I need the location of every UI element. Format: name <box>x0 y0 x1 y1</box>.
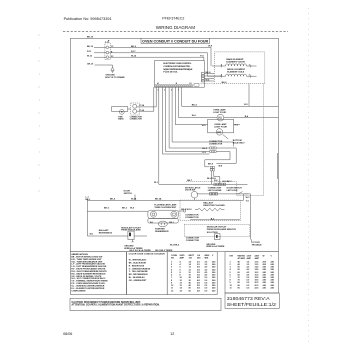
caution box <box>70 298 221 310</box>
broil element label <box>227 69 245 74</box>
svg-text:4.5: 4.5 <box>205 274 209 277</box>
wire GR ground run <box>95 65 113 67</box>
svg-text:240: 240 <box>271 281 275 284</box>
svg-text:AT BKR: AT BKR <box>238 257 246 260</box>
svg-text:2C: 2C <box>111 56 114 58</box>
wire label W-15 <box>87 56 93 58</box>
connector caption mid <box>209 141 223 145</box>
wire EOC pin4 to elements <box>204 80 214 82</box>
title block part number <box>227 296 270 301</box>
wire label B-5 <box>244 104 248 106</box>
svg-text:12: 12 <box>189 267 192 269</box>
bake terminal label T-1 <box>249 64 251 66</box>
svg-text:4.0: 4.0 <box>247 266 251 269</box>
heating element broil coil <box>221 74 251 78</box>
wire label BK-9 <box>131 46 137 48</box>
svg-text:V: V <box>212 255 214 257</box>
pin label 1 <box>111 46 114 48</box>
svg-text:NO: NO <box>171 258 174 260</box>
svg-text:BK-1: BK-1 <box>169 222 173 224</box>
EOC right pin 1 <box>201 73 204 75</box>
abbreviations table box <box>70 252 126 295</box>
wire labels R-4 W-6 <box>214 179 233 183</box>
wire label BK-10 <box>87 46 94 48</box>
svg-text:DEMARREUR: DEMARREUR <box>155 230 169 233</box>
svg-text:GR-19: GR-19 <box>87 63 94 65</box>
svg-text:4.5: 4.5 <box>205 271 209 274</box>
wire gauge table 2 text <box>230 254 275 289</box>
svg-text:40: 40 <box>189 284 192 287</box>
svg-text:4.0: 4.0 <box>205 266 209 269</box>
time connector dashed box <box>131 103 139 115</box>
svg-text:318046773 REV:A: 318046773 REV:A <box>227 296 270 301</box>
svg-text:P-36: P-36 <box>140 110 145 112</box>
heating element bake coil <box>221 64 251 68</box>
starter caption <box>155 227 169 233</box>
pin label 2 <box>111 51 113 53</box>
wire label W-1 on latch feed <box>154 182 159 184</box>
oven cavity box <box>208 119 234 132</box>
svg-text:7: 7 <box>178 90 179 92</box>
svg-text:BL-3: BL-3 <box>202 148 207 150</box>
wire label BK-7 <box>187 180 193 182</box>
pin label 3 <box>111 56 114 58</box>
bottom bulb note <box>233 140 246 144</box>
wire gauge table 1 box <box>167 252 217 295</box>
svg-text:AMP: AMP <box>247 257 252 260</box>
wire label GR-19 <box>87 63 94 65</box>
wire label W-9 <box>104 208 110 210</box>
svg-text:6.0: 6.0 <box>205 290 209 292</box>
wire element return drop <box>248 84 250 107</box>
ground symbol chassis <box>111 67 114 72</box>
svg-text:BK-16: BK-16 <box>87 37 94 39</box>
svg-text:R - RED/ROUGE: R - RED/ROUGE <box>129 265 145 267</box>
motor latch caption <box>185 186 201 191</box>
leader line bottom bulb <box>223 135 229 140</box>
wire label cluster W2 BK2 <box>170 245 180 247</box>
svg-text:8: 8 <box>171 280 173 282</box>
connector pin circle b <box>133 109 137 113</box>
dashed top border <box>63 30 288 32</box>
wire label W-4 <box>206 79 211 82</box>
svg-text:W - WHITE/BLANC: W - WHITE/BLANC <box>129 258 147 261</box>
svg-text:14.5: 14.5 <box>255 268 260 271</box>
svg-text:WIRING DIAGRAM: WIRING DIAGRAM <box>156 25 195 30</box>
oven conduit header text <box>142 40 209 44</box>
svg-text:240: 240 <box>212 282 216 285</box>
svg-text:240: 240 <box>212 289 216 292</box>
svg-text:BR - BROWN/BRUN: BR - BROWN/BRUN <box>129 274 148 276</box>
terminal TB1-1 <box>106 46 109 49</box>
wire EOC pin1 to elements <box>204 73 214 75</box>
fluorescent pin circle right <box>171 211 177 217</box>
svg-text:4: 4 <box>171 268 173 271</box>
svg-text:08/06: 08/06 <box>63 332 72 336</box>
svg-text:240: 240 <box>271 284 275 287</box>
EOC pin row connector <box>155 85 192 87</box>
wire labels BK-8 W-10 <box>181 209 192 211</box>
svg-text:5: 5 <box>171 90 172 92</box>
svg-text:BK-5: BK-5 <box>104 208 110 210</box>
svg-text:BOLT IS TO FRAME: BOLT IS TO FRAME <box>105 76 125 79</box>
oven lamp 1 caption <box>213 109 226 114</box>
fluorescent lamp FL1 <box>148 210 178 218</box>
footer date <box>63 332 72 336</box>
svg-text:240: 240 <box>263 286 267 289</box>
svg-text:14: 14 <box>180 287 183 290</box>
header title WIRING DIAGRAM <box>156 25 195 30</box>
connector row on latch wire <box>214 183 226 186</box>
svg-text:6.0: 6.0 <box>247 287 251 289</box>
EOC right pin 3 <box>201 78 204 80</box>
svg-text:P-34: P-34 <box>140 104 145 107</box>
wire labels W-3 P-2 <box>246 197 251 202</box>
wire labels L1 BK-1 <box>86 196 95 235</box>
connector block A row1 <box>210 147 216 149</box>
svg-text:B-5: B-5 <box>244 104 248 106</box>
svg-text:BL - BLUE/BLEU: BL - BLUE/BLEU <box>129 277 145 279</box>
svg-text:240: 240 <box>263 281 267 284</box>
leader trouble note <box>251 238 253 242</box>
svg-text:R-3: R-3 <box>202 152 206 154</box>
svg-text:40: 40 <box>238 263 241 266</box>
svg-text:240: 240 <box>212 284 216 287</box>
svg-text:120: 120 <box>189 258 193 260</box>
svg-text:14.5: 14.5 <box>255 266 260 269</box>
electronic oven control U1 box <box>154 61 204 87</box>
title block sheet <box>227 302 277 307</box>
svg-text:240: 240 <box>212 263 216 266</box>
broil terminal label T-3 <box>249 75 251 77</box>
svg-text:CONNECTOR: CONNECTOR <box>186 240 200 242</box>
border double segment <box>276 153 278 179</box>
broil terminal label T-4 <box>221 74 223 77</box>
wire L2 left <box>94 56 106 58</box>
wire broil to edge <box>251 75 257 77</box>
svg-text:PLUS DE SOL: PLUS DE SOL <box>163 72 178 74</box>
terminal TB1-2 <box>106 51 109 54</box>
svg-text:240: 240 <box>263 279 267 282</box>
svg-text:TUBE FLUORESCENT: TUBE FLUORESCENT <box>154 207 177 209</box>
wire EOC pin3 to elements <box>204 78 214 80</box>
svg-text:240: 240 <box>271 268 275 271</box>
svg-text:AMP: AMP <box>180 257 185 260</box>
svg-text:BULB ONLY: BULB ONLY <box>233 143 246 145</box>
fluorescent pin circle left <box>151 211 157 217</box>
wire broil element feed <box>208 75 222 77</box>
label J1 on top border <box>87 37 94 39</box>
svg-text:ELEMENT SOLE: ELEMENT SOLE <box>227 71 245 73</box>
connector pin circle a <box>133 104 137 108</box>
latch connector pins <box>210 193 218 195</box>
door switch caption right <box>227 187 243 191</box>
header publication number <box>64 17 112 21</box>
svg-text:LIGHT FOUR: LIGHT FOUR <box>213 112 226 114</box>
transformer? small terminal circle <box>119 110 124 115</box>
wire label W-4 mid <box>192 114 197 117</box>
svg-text:1: 1 <box>158 90 159 92</box>
wire latch drop 2 <box>250 194 252 238</box>
outlet J2 symbol <box>128 231 134 242</box>
svg-text:4.5: 4.5 <box>247 273 251 276</box>
svg-text:30: 30 <box>189 280 192 282</box>
svg-text:O - ORANGE/ORANGE: O - ORANGE/ORANGE <box>129 267 151 270</box>
svg-text:RESISTANCE: RESISTANCE <box>99 231 113 234</box>
wire gauge table 2 box <box>225 252 278 293</box>
svg-text:4/2: 4/2 <box>197 276 201 279</box>
svg-text:240: 240 <box>212 279 216 282</box>
wire labels BK-8 W-8 <box>208 163 223 167</box>
svg-text:R-5: R-5 <box>235 125 239 127</box>
svg-text:BK-4: BK-4 <box>192 104 198 107</box>
lamp L2 symbol <box>216 129 222 135</box>
EOC right pin 2 <box>201 75 204 77</box>
svg-text:6: 6 <box>180 267 182 269</box>
svg-text:240: 240 <box>271 276 275 279</box>
wire bundle line 5 <box>166 87 210 151</box>
switch S1 symbol <box>236 192 248 194</box>
header model number <box>162 17 184 21</box>
svg-text:ELECTRONIC OVEN CONTROL: ELECTRONIC OVEN CONTROL <box>163 63 192 65</box>
svg-text:10: 10 <box>180 280 183 282</box>
title block box <box>225 293 279 308</box>
svg-text:40: 40 <box>189 282 192 285</box>
door switch caption left <box>124 190 133 195</box>
svg-text:T-9: T-9 <box>246 200 250 202</box>
svg-text:240: 240 <box>212 261 216 264</box>
svg-text:CONNECTOR: CONNECTOR <box>185 217 199 219</box>
wire label R-17 <box>131 51 136 53</box>
svg-text:240: 240 <box>271 286 275 289</box>
svg-text:240: 240 <box>212 276 216 279</box>
svg-text:BK-8: BK-8 <box>208 163 214 165</box>
svg-text:SOLUTION: SOLUTION <box>207 232 218 234</box>
wire label W-5 <box>202 125 207 127</box>
EOC right pin 4 <box>201 80 204 82</box>
outlet J3 symbol <box>215 234 221 240</box>
elements dashed enclosure <box>214 52 264 84</box>
svg-text:240: 240 <box>263 273 267 276</box>
terminal TB1-3 <box>106 56 109 59</box>
svg-text:W-1: W-1 <box>150 222 153 224</box>
svg-text:KW: KW <box>230 255 233 257</box>
svg-text:W-4: W-4 <box>130 207 135 210</box>
svg-text:BK-1: BK-1 <box>86 199 92 201</box>
wire switch row <box>197 193 251 195</box>
svg-text:TROUBLE: TROUBLE <box>252 244 263 246</box>
wire bundle line 9 <box>179 87 217 117</box>
svg-text:W-8: W-8 <box>208 46 213 48</box>
svg-text:Y - YELLOW/JAUNE: Y - YELLOW/JAUNE <box>129 270 149 273</box>
wire bundle line 3 <box>159 87 248 184</box>
wire label R-11 <box>87 51 92 53</box>
svg-text:3: 3 <box>164 90 165 92</box>
connector block A row2 <box>210 151 216 153</box>
svg-text:240: 240 <box>263 276 267 279</box>
wire gauge table 1 text <box>171 254 216 292</box>
color code table box <box>127 252 168 295</box>
wire L1 left <box>94 46 106 48</box>
wire left drop to lamp circuit <box>87 199 147 237</box>
svg-text:W-15: W-15 <box>87 56 93 58</box>
wire fluorescent feed <box>87 200 243 211</box>
wire L2 right run <box>109 57 204 61</box>
svg-text:N: N <box>176 83 178 85</box>
wire plug to connector <box>128 108 131 110</box>
svg-text:240: 240 <box>212 274 216 277</box>
abbreviations table text <box>71 253 107 292</box>
faint scan artifact right dotted line <box>308 8 310 345</box>
svg-text:MIN: MIN <box>205 258 209 260</box>
connector caption fluor right <box>185 214 199 219</box>
svg-text:WIRE A LA TERRE: WIRE A LA TERRE <box>206 245 225 248</box>
connector latch caption <box>208 187 222 191</box>
oven conduit header box <box>141 38 210 43</box>
bake terminal label T-2 <box>221 64 223 66</box>
modular outlet caption left <box>121 226 141 231</box>
svg-text:BK-10: BK-10 <box>87 46 94 48</box>
svg-text:W-2 BK-2: W-2 BK-2 <box>170 245 180 247</box>
svg-text:LATCH SW: LATCH SW <box>227 189 238 192</box>
svg-text:ELEMENT VOUTE: ELEMENT VOUTE <box>226 61 245 63</box>
wire latch drop 1 <box>243 194 245 200</box>
EOC text <box>163 63 193 73</box>
fluorescent lamp caption <box>154 203 177 209</box>
wire bundle line 6 <box>169 87 209 148</box>
svg-text:12: 12 <box>170 332 174 336</box>
wire bundle line 4 <box>162 87 209 154</box>
svg-text:240: 240 <box>271 260 275 263</box>
svg-text:BK - BLACK/NOIR: BK - BLACK/NOIR <box>129 261 147 264</box>
connector block B <box>210 166 214 171</box>
cavity dashed boundary right <box>186 84 264 196</box>
svg-text:240: 240 <box>212 271 216 274</box>
svg-text:SHEET/FEUILLE:1/2: SHEET/FEUILLE:1/2 <box>227 302 277 307</box>
svg-text:4.0: 4.0 <box>205 268 209 271</box>
wire L1 right run <box>109 47 211 66</box>
svg-text:MASS: MASS <box>118 118 124 121</box>
svg-text:240: 240 <box>263 266 267 269</box>
wire pin speck labels <box>158 90 179 92</box>
svg-text:B-2: B-2 <box>211 218 215 220</box>
color code table text <box>129 253 166 282</box>
svg-text:LIGHT FOUR: LIGHT FOUR <box>214 127 227 129</box>
svg-text:CONTROL DU FOUR ELECTRO-: CONTROL DU FOUR ELECTRO- <box>163 66 190 68</box>
plug P1 receptacle <box>112 107 128 112</box>
EOC pin row end connector <box>194 83 199 86</box>
svg-text:L1: L1 <box>105 41 108 43</box>
wire bake to edge <box>251 65 257 67</box>
wire bundle line 10 <box>182 87 279 106</box>
svg-text:BK-7: BK-7 <box>187 180 193 182</box>
wire label W-14 <box>131 55 137 58</box>
svg-text:40: 40 <box>238 260 241 263</box>
connector labels <box>140 104 145 112</box>
svg-text:240: 240 <box>212 287 216 290</box>
svg-text:NIQUE CONTROLE ELECTRONIQUE: NIQUE CONTROLE ELECTRONIQUE <box>163 69 193 71</box>
svg-text:SWITCH: SWITCH <box>124 193 133 195</box>
main diagram box <box>70 38 278 251</box>
svg-text:CONNECTOR: CONNECTOR <box>130 119 143 121</box>
wire label BK-4 mid <box>192 104 198 107</box>
wire bundle line 7 <box>172 87 233 146</box>
svg-text:3: 3 <box>171 267 173 269</box>
wire label BL-8 <box>207 178 216 180</box>
wire ballast bottom <box>190 219 240 221</box>
wire bundle line 2 <box>137 87 154 111</box>
wire block B down 2 <box>214 171 220 184</box>
svg-text:240: 240 <box>263 284 267 287</box>
svg-text:3/2: 3/2 <box>197 267 201 269</box>
svg-text:COLOR CODE CODE DE COULEUR: COLOR CODE CODE DE COULEUR <box>129 253 166 255</box>
svg-text:4: 4 <box>180 263 182 266</box>
wire EOC pin2 to elements <box>204 75 222 77</box>
wire label BK-2 <box>122 208 128 210</box>
terminal block TB1 dashed outline <box>105 43 110 60</box>
svg-text:LATCH HOME: LATCH HOME <box>208 189 222 192</box>
svg-text:90: 90 <box>238 287 241 289</box>
svg-text:MODULAR OUTLET: MODULAR OUTLET <box>207 226 227 229</box>
svg-text:14: 14 <box>189 263 192 266</box>
svg-text:240: 240 <box>271 273 275 276</box>
svg-text:4.0: 4.0 <box>247 268 251 271</box>
svg-text:RESISTOR PLACARD: RESISTOR PLACARD <box>203 204 225 207</box>
lamp L1 symbol <box>217 114 224 121</box>
svg-text:AMP: AMP <box>255 257 260 260</box>
modular outlet dashed box <box>184 224 250 236</box>
svg-text:240: 240 <box>263 271 267 274</box>
svg-text:BK-6: BK-6 <box>222 82 228 84</box>
wire bundle line 8 <box>175 87 207 125</box>
svg-text:L2: L2 <box>189 83 191 85</box>
svg-text:PRISE MODULAIRE SERVICE: PRISE MODULAIRE SERVICE <box>207 228 237 231</box>
wire block A right run 2 <box>205 152 230 167</box>
svg-text:4/2: 4/2 <box>197 279 201 282</box>
svg-text:4: 4 <box>230 268 232 271</box>
svg-text:240: 240 <box>212 268 216 271</box>
dashed stub left of elements <box>201 83 215 85</box>
svg-text:240: 240 <box>271 271 275 274</box>
wire cavity right stub <box>234 124 240 126</box>
wire labels BL-30 R-30 <box>202 148 207 154</box>
svg-text:240: 240 <box>271 266 275 269</box>
svg-text:240: 240 <box>197 257 201 260</box>
ballast dashed box <box>180 200 240 220</box>
wire block A right run 1 <box>216 148 236 163</box>
svg-text:12: 12 <box>171 290 174 292</box>
svg-text:22.5: 22.5 <box>255 287 260 289</box>
svg-text:BK-8: BK-8 <box>206 72 212 74</box>
svg-text:W-5: W-5 <box>202 125 207 127</box>
wire bundle line 1 <box>137 87 157 107</box>
svg-text:W-1: W-1 <box>90 233 95 235</box>
svg-text:CONNECTOR: CONNECTOR <box>209 143 223 145</box>
plug text <box>118 116 124 120</box>
resistor ballast <box>195 208 224 211</box>
svg-text:240: 240 <box>212 266 216 269</box>
svg-text:V: V <box>271 255 273 257</box>
svg-text:ATTENTION: COUPER L'ALIMENTATI: ATTENTION: COUPER L'ALIMENTATION AVANT D… <box>72 304 160 307</box>
faint scan artifact left dots <box>38 34 39 191</box>
wire label W-7 <box>130 207 135 210</box>
svg-text:W-14: W-14 <box>131 55 137 58</box>
svg-text:W-2 BK-2: W-2 BK-2 <box>223 181 233 183</box>
EOC bottom labels L1 N L2 <box>157 83 192 85</box>
svg-text:W-1: W-1 <box>154 182 159 184</box>
svg-text:1C: 1C <box>111 46 114 48</box>
wire label P-8 <box>200 55 204 57</box>
